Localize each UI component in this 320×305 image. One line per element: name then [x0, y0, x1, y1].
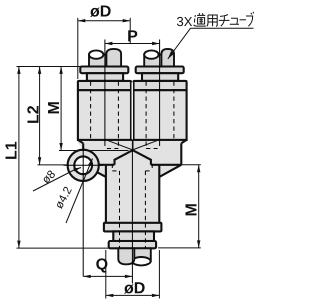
L2 extension / shoulder thin line [38, 164, 99, 166]
port 2 neck [142, 73, 178, 81]
leader o4.2 [66, 159, 93, 224]
shoulder line right segment [151, 164, 181, 166]
port 2 release button [136, 67, 184, 74]
Q dimension [83, 275, 132, 277]
bottom neck [113, 231, 154, 241]
hex chamfer left [83, 165, 106, 177]
ブ [246, 12, 254, 26]
hex chamfer fill right [159, 165, 181, 177]
bottom tube small cylinder over ellipse [134, 248, 151, 261]
svg-text:ø4.2: ø4.2 [53, 185, 74, 211]
tube 2 end ellipse [144, 50, 158, 58]
bottom stem fill [106, 165, 159, 223]
port 2 cap band [134, 81, 187, 90]
mounting hole inner circle [74, 156, 92, 174]
roof left slant [115, 150, 133, 165]
mounting boss outer circle [68, 150, 99, 181]
M right dimension [158, 165, 201, 248]
center stub between caps [132, 140, 134, 151]
M left dimension [59, 67, 129, 151]
body bottom chamfer left small [78, 140, 83, 143]
dimension P [105, 43, 160, 45]
V notch left slant [107, 140, 133, 150]
slit between caps [131, 82, 133, 139]
tube 2 big cylinder [161, 49, 174, 67]
crosshair vertical and Q extension [82, 147, 84, 277]
tube 1 big cylinder [106, 49, 121, 67]
roof right slant [133, 150, 151, 165]
leader o8 [33, 168, 81, 192]
hidden bore dashes port2 [146, 82, 174, 149]
shoulder line left segment [99, 164, 115, 166]
arrowheads [17, 19, 200, 297]
ュ [230, 18, 239, 24]
body bottom chamfer right small [181, 140, 186, 143]
ー [240, 19, 247, 21]
適 [194, 15, 206, 26]
svg-text:M: M [46, 101, 63, 114]
right slab edge [180, 143, 182, 165]
V notch right slant [133, 140, 159, 150]
svg-text:øD: øD [124, 280, 145, 297]
tube 1 end ellipse [89, 50, 103, 58]
label tekiyo tube (drawn strokes) [194, 12, 255, 26]
svg-text:L1: L1 [4, 141, 21, 160]
svg-text:øD: øD [90, 4, 111, 21]
svg-text:M: M [184, 203, 201, 216]
hidden bore dashes port1 [91, 82, 119, 149]
centerline port 1 [104, 40, 106, 147]
チ [219, 15, 230, 27]
bottom release button [109, 241, 156, 248]
svg-text:P: P [127, 28, 138, 45]
port 1 neck [87, 73, 123, 81]
left slab edge [82, 143, 84, 150]
oD bottom dimension [106, 250, 160, 299]
tube 2 small cylinder under ellipse [144, 55, 161, 67]
bottom tube big cylinder [118, 248, 134, 264]
hex chamfer right [159, 165, 181, 177]
用 [207, 15, 217, 26]
port 1 cap band [78, 81, 131, 90]
dimension oD top [78, 18, 130, 79]
hex chamfer fill left [83, 165, 106, 177]
svg-text:3X: 3X [176, 14, 192, 29]
bottom tube end ellipse [132, 257, 151, 265]
port 1 body [78, 90, 131, 140]
port 1 release button [80, 67, 128, 74]
leader 3x tube label [191, 27, 254, 29]
bottom stem edges [106, 165, 159, 223]
port 2 body [134, 90, 187, 140]
hidden cavity dashes center [112, 164, 152, 248]
central slab between body bottom and hex shoulder [83, 140, 181, 165]
L2 dimension [39, 67, 41, 165]
svg-text:L2: L2 [26, 105, 43, 124]
bottom collar band [104, 223, 161, 232]
centerline port 2 [159, 40, 161, 147]
left chamfer triangle under port1 body [78, 140, 83, 150]
tube 1 small cylinder under ellipse [89, 55, 106, 67]
svg-text:ø8: ø8 [40, 168, 58, 186]
crosshair horizontal [64, 164, 104, 166]
centerline bottom port [131, 150, 133, 284]
L1 dimension [17, 67, 109, 249]
